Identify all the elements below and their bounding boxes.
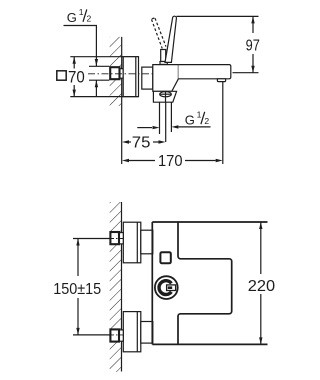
svg-text:97: 97 [246,38,260,55]
dimension 97 [177,16,260,72]
svg-text:170: 170 [158,153,183,170]
upper union nut (front view) [141,230,153,254]
lever handle solid [165,16,176,62]
G 1/2 bottom leader arrows [137,125,210,129]
svg-text:2: 2 [204,116,209,126]
spout (top view) [178,65,230,79]
G 1/2 top leader: underline and arrow down [64,26,110,97]
svg-text:75: 75 [132,135,151,152]
extension stubs for fitting thread [89,65,109,67]
svg-text:70: 70 [68,68,85,86]
wall (front view) hatched band [110,202,122,372]
lever handle dashed (alternate position) [152,18,167,49]
aerator under spout tip [217,79,225,82]
G 1/2 bottom label [185,110,210,128]
union nut (top view) [142,67,153,89]
lever neck [161,50,166,62]
body block (top view) [153,65,179,92]
extension line bottom of 70 square [70,96,138,98]
diverter knob [160,92,172,103]
upper escutcheon (front view) [123,222,141,263]
lever neck base ring [160,62,167,65]
dimension 150±15 [53,239,109,335]
G 1/2 top label [67,7,92,25]
svg-text:G: G [67,10,77,25]
diverter housing under body [153,91,176,102]
svg-text:G: G [185,113,195,128]
dimension 220 [248,222,275,344]
shower outlet thread extension lines [160,102,172,142]
lower wall fitting (front view) bold square [110,329,123,341]
centerline (top view) dash-dot [88,73,166,75]
body outline (front view) [152,222,267,344]
dimension 75 [122,135,166,152]
GROHE logo [155,276,178,299]
wall (top view) hatched band [110,37,122,164]
wall fitting (top view) bold square [110,67,123,79]
svg-text:150±15: 150±15 [53,281,101,298]
lower escutcheon (front view) [123,312,141,352]
label square-70 [57,68,85,86]
dimension 170 [122,82,223,170]
arrow up to fitting bottom [95,80,97,96]
lower union nut (front view) [141,322,153,344]
upper wall fitting (front view) bold square [110,232,123,244]
button square on body [160,252,170,263]
svg-text:1: 1 [197,110,202,120]
extension line top of 70 square [70,56,138,58]
escutcheon (top view) [123,57,138,97]
svg-text:1: 1 [79,7,84,17]
dimension 70 vertical line with arrows [73,57,76,97]
centerline stubs to fittings (dash-dot) [108,238,124,240]
svg-text:220: 220 [248,278,275,295]
svg-text:2: 2 [87,14,92,24]
